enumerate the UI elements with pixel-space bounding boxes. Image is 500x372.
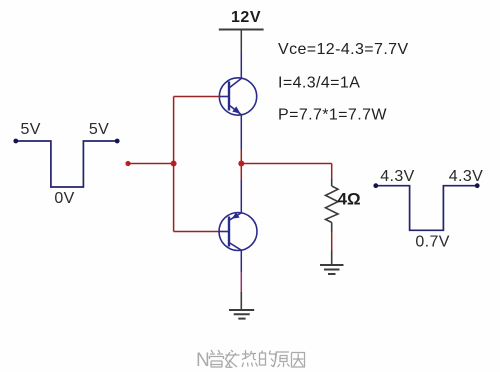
- caption hand-drawn CJK strokes: [210, 350, 305, 368]
- svg-text:N: N: [196, 350, 210, 371]
- svg-text:I=4.3/4=1A: I=4.3/4=1A: [278, 75, 360, 92]
- input waveform 5V pulse: [13, 121, 119, 207]
- transistor Q2 PNP: [219, 212, 257, 250]
- char fa: [226, 350, 240, 368]
- transistor Q1 NPN: [219, 78, 256, 115]
- node input junction: [171, 161, 177, 167]
- char guan (bamboo+guan): [210, 350, 224, 367]
- ground (main): [229, 310, 254, 319]
- char re: [242, 350, 258, 367]
- char de: [260, 351, 276, 367]
- svg-text:4Ω: 4Ω: [338, 190, 361, 209]
- svg-text:5V: 5V: [21, 121, 41, 138]
- svg-text:0V: 0V: [54, 190, 74, 207]
- svg-text:5V: 5V: [89, 121, 109, 138]
- wire output node to resistor: [241, 164, 331, 180]
- char yin: [292, 353, 305, 368]
- resistor R1 4ohm: [326, 179, 361, 232]
- char yuan: [274, 352, 290, 367]
- svg-text:Vce=12-4.3=7.7V: Vce=12-4.3=7.7V: [278, 41, 409, 58]
- ground (resistor): [320, 265, 344, 274]
- power rail 12V: [219, 9, 264, 30]
- svg-text:12V: 12V: [231, 9, 261, 26]
- wire 12V rail to Q1 collector: [240, 30, 242, 79]
- wire input to bus: [128, 163, 174, 165]
- svg-text:4.3V: 4.3V: [380, 168, 415, 185]
- wire resistor to ground: [331, 232, 333, 265]
- output waveform 4.3V pulse: [373, 168, 483, 251]
- svg-text:P=7.7*1=7.7W: P=7.7*1=7.7W: [278, 107, 387, 124]
- wire base bus vertical: [173, 97, 175, 232]
- node input: [125, 161, 130, 166]
- node output junction: [238, 161, 244, 167]
- wire Q1 emitter to output node: [240, 115, 242, 212]
- wire to Q1 base: [174, 96, 220, 98]
- svg-text:4.3V: 4.3V: [449, 168, 484, 185]
- wire to Q2 base: [174, 231, 220, 233]
- wire Q2 collector to ground: [240, 250, 242, 310]
- svg-text:0.7V: 0.7V: [415, 234, 450, 251]
